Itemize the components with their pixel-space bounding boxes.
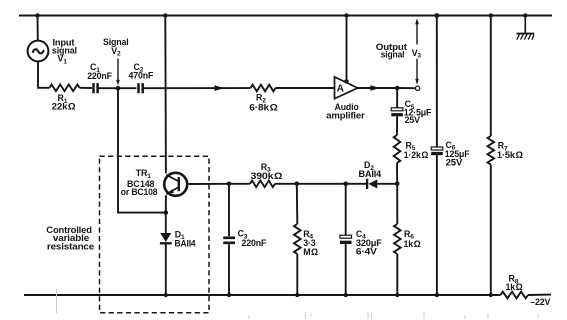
svg-text:or BC108: or BC108 <box>121 187 158 197</box>
svg-text:390k Ω: 390k Ω <box>251 171 283 181</box>
wire R6 to bottom rail <box>396 254 398 295</box>
wire R3 to R4 node <box>275 183 297 185</box>
ground <box>517 16 535 40</box>
wire R7 column from top rail <box>490 16 492 137</box>
wire amplifier power from top rail <box>346 16 348 83</box>
node top rail / TR1 collector column <box>163 13 167 17</box>
node output / C5 column <box>395 86 400 91</box>
arrow output direction <box>370 85 379 91</box>
node base wire / R4 <box>295 182 300 187</box>
diode D1 BAII4 <box>160 213 172 295</box>
svg-text:–22V: –22V <box>530 297 550 307</box>
resistor R2 <box>251 85 276 92</box>
svg-text:A: A <box>337 84 345 95</box>
svg-text:BAII4: BAII4 <box>359 169 382 179</box>
resistor R3 <box>250 181 275 188</box>
wire TR1 emitter down to node <box>165 195 167 212</box>
wire R4 node to C4 node <box>297 183 346 185</box>
resistor R7 <box>488 136 495 165</box>
node amplifier power <box>344 79 348 83</box>
wire R2 to amplifier <box>276 87 335 89</box>
node bottom rail / R4 <box>295 293 299 297</box>
svg-text:470nF: 470nF <box>129 71 154 81</box>
wire C4 node to D2 <box>346 183 367 185</box>
faint scan artifacts bottom caption <box>57 289 539 319</box>
svg-text:25V: 25V <box>446 157 463 167</box>
node bottom rail / D1 <box>164 293 168 297</box>
node top rail / amplifier power <box>344 13 348 17</box>
wire V2 node down and across to emitter node <box>118 88 166 212</box>
svg-text:220nF: 220nF <box>242 238 267 248</box>
node top rail / C6 column <box>434 13 439 18</box>
svg-text:6·4V: 6·4V <box>356 247 377 257</box>
input signal source V1 <box>28 16 50 88</box>
svg-text:resistance: resistance <box>47 241 94 251</box>
wire node to R6 <box>396 184 398 224</box>
svg-text:1·5k Ω: 1·5k Ω <box>497 150 523 160</box>
node base wire / R3 / C3 <box>227 182 232 187</box>
resistor R1 <box>50 85 80 92</box>
resistor R5 <box>394 135 401 163</box>
wire C1 to node V2 <box>98 87 116 89</box>
wire bottom rail <box>24 294 501 296</box>
wire node to R3 <box>229 183 250 185</box>
node top rail / V1 source <box>35 13 39 17</box>
svg-text:220nF: 220nF <box>87 71 112 81</box>
node bottom rail / C4 <box>344 293 348 297</box>
node bottom rail / C6 <box>435 293 439 297</box>
resistor R8 <box>501 292 529 299</box>
svg-text:BAII4: BAII4 <box>175 238 196 248</box>
svg-text:1·2k Ω: 1·2k Ω <box>404 150 428 160</box>
capacitor C4 (electrolytic) <box>340 184 352 295</box>
node bottom rail / R6 <box>395 293 399 297</box>
svg-text:22k Ω: 22k Ω <box>52 101 76 111</box>
wire amplifier output with arrow <box>358 87 395 89</box>
wire top rail (ground/common rail) <box>19 15 552 17</box>
capacitor C1 <box>94 83 98 93</box>
wire output node to C5 <box>396 88 398 108</box>
wire collector column from top rail to TR1 <box>164 16 167 174</box>
signal V2 label arrow <box>116 59 120 86</box>
svg-text:25V: 25V <box>405 115 420 125</box>
node bottom rail / C3 <box>227 293 231 297</box>
wire TR1 base to R3 node <box>189 183 229 185</box>
terminal output (open circle) <box>415 86 419 90</box>
node base wire / C4 <box>343 182 348 187</box>
svg-text:amplifier: amplifier <box>326 110 365 120</box>
wire C5 to R5 <box>396 116 398 135</box>
wire R8 to -22V <box>528 294 551 296</box>
arrow signal direction <box>214 85 223 91</box>
capacitor C3 <box>223 184 235 295</box>
wire C2 to R2 with direction arrow <box>143 87 251 89</box>
node bottom rail / R7 <box>489 293 493 297</box>
node V2 (signal) <box>116 86 121 91</box>
dashed box controlled variable resistance <box>100 156 210 313</box>
resistor R6 <box>394 224 401 254</box>
svg-text:1k Ω: 1k Ω <box>506 282 523 292</box>
capacitor C5 (electrolytic) <box>391 108 403 116</box>
wire C6 to bottom rail <box>436 155 438 295</box>
svg-text:signal: signal <box>52 46 77 56</box>
wire R7 to bottom rail <box>490 165 492 296</box>
resistor R4 <box>294 184 301 295</box>
node emitter / D1 / V2 return <box>164 210 169 215</box>
capacitor C6 (electrolytic) <box>431 147 443 155</box>
node D2 / R5 / R6 <box>395 182 400 187</box>
capacitor C2 <box>118 87 136 89</box>
output signal V3 measure arrow <box>415 18 419 84</box>
transistor TR1 (BC148 or BC108) <box>164 173 187 196</box>
wire R1 to C1 <box>80 87 92 89</box>
wire R5 to node <box>396 163 398 184</box>
op-amp U1 audio amplifier <box>335 77 358 99</box>
svg-text:M Ω: M Ω <box>303 247 318 257</box>
node top rail / R7 column <box>489 13 493 17</box>
svg-text:1k Ω: 1k Ω <box>404 239 421 249</box>
node top rail / ground stub <box>523 13 527 17</box>
wire C6 column from top rail <box>436 16 438 147</box>
svg-text:signal: signal <box>381 49 405 59</box>
diode D2 BAII4 <box>367 179 397 189</box>
svg-text:6·8k Ω: 6·8k Ω <box>249 102 277 112</box>
